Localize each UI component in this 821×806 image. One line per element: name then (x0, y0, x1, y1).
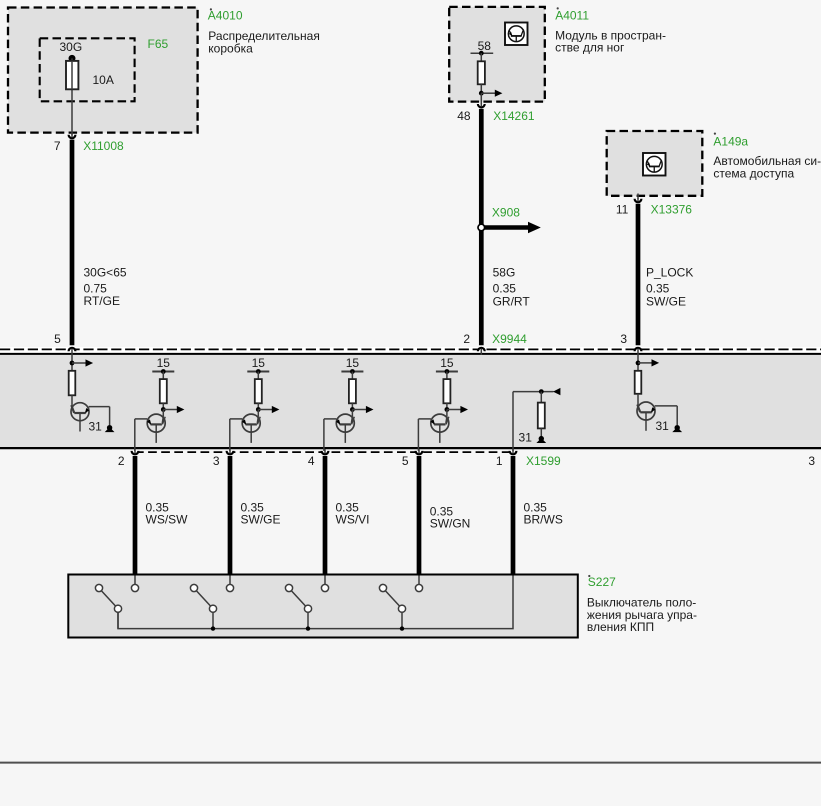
wire label 30G<65 0.75 RT/GE (84, 265, 127, 308)
svg-text:F65: F65 (148, 37, 169, 51)
label band pin 5 (54, 332, 61, 346)
label X14261 (493, 109, 535, 123)
wire resistor to node 4 (446, 403, 448, 409)
wire Q-B2 to pin 3 (230, 419, 243, 453)
label X11008 (83, 139, 124, 153)
svg-text:3: 3 (213, 454, 220, 468)
svg-text:стве для ног: стве для ног (555, 41, 625, 55)
svg-text:2: 2 (463, 332, 470, 346)
switch S227-4 input stub (418, 576, 420, 585)
wire label 0.35 SW/GN (430, 505, 471, 531)
pin tip in X14261 cup (480, 103, 482, 106)
svg-text:P_LOCK: P_LOCK (646, 266, 693, 280)
ground 31 center (536, 436, 546, 443)
svg-text:10A: 10A (93, 73, 114, 87)
label 31 center (519, 430, 533, 444)
svg-text:30G: 30G (60, 40, 83, 54)
wire node to transistor B2 (257, 410, 258, 424)
wire pin1 riser (513, 392, 554, 454)
wire pin5 into module (71, 349, 73, 371)
switch S227-1 input stub (134, 576, 136, 585)
connector X11008 cup (69, 135, 76, 138)
distribution box A4010 (8, 8, 198, 133)
wire Q-D emitter to ground (655, 406, 678, 425)
label pin 48 (457, 109, 471, 123)
band bottom pin 1 tip (512, 449, 514, 453)
switch S227-2 lever (196, 591, 210, 606)
band pin 3 cup (635, 348, 642, 351)
splice X908 node circle (478, 224, 485, 231)
svg-text:0.35: 0.35 (646, 282, 670, 296)
wire R-C to ground (540, 428, 542, 436)
band bottom pin 3 cup (227, 451, 234, 454)
label 31 left (89, 419, 103, 433)
svg-text:2: 2 (118, 454, 125, 468)
switch S227-4 common contact (398, 605, 405, 612)
node 58 bar (471, 51, 494, 56)
pin tip under band pin 2 (480, 349, 482, 355)
switch S227-4 common lead (401, 612, 403, 628)
node with output arrow B1 (161, 406, 184, 413)
resistor R-D (635, 371, 642, 394)
wire node C to resistor (540, 392, 542, 403)
node under pin3 with arrow (636, 359, 660, 366)
svg-text:A149a: A149a (713, 135, 748, 149)
switch S227-3 common lead (307, 612, 309, 628)
svg-text:X14261: X14261 (493, 109, 535, 123)
fuse box F65 (40, 38, 135, 101)
fuse F65 10A body (66, 61, 78, 89)
svg-text:WS/VI: WS/VI (336, 512, 370, 526)
label A4010 (208, 8, 243, 22)
switch S227-3 common contact (304, 605, 311, 612)
svg-text:коробка: коробка (208, 41, 253, 55)
wire 58 to resistor (480, 53, 482, 61)
wire Q-B1 to pin 2 (135, 419, 148, 453)
switch S227-4 lever (385, 591, 399, 606)
connector X13376 cup (635, 199, 642, 202)
wire node to transistor B4 (446, 410, 447, 424)
svg-text:BR/WS: BR/WS (524, 512, 563, 526)
bus junction dot 2 (211, 626, 215, 630)
KL15 bar 4 (436, 369, 458, 374)
node 30G dot (69, 55, 76, 62)
bus junction dot 3 (306, 626, 310, 630)
switch S227-3 open contact (285, 584, 292, 591)
label band pin 3 (620, 332, 627, 346)
label Автомобильная система доступа (713, 154, 821, 180)
KL15 label 4 (440, 356, 454, 370)
wire pin3 into module (637, 349, 639, 371)
svg-text:31: 31 (656, 419, 670, 433)
switch S227-2 common lead (212, 612, 214, 628)
wire KL15 to resistor 2 (257, 372, 259, 380)
wire resistor to node 2 (257, 403, 259, 409)
pin tip in X13376 cup (637, 198, 639, 201)
transistor Q-B2 (242, 414, 260, 443)
wire node to transistor B1 (162, 410, 163, 424)
wire Q-B3 to pin 4 (324, 419, 337, 453)
node with output arrow B3 (350, 406, 374, 413)
svg-text:31: 31 (89, 419, 103, 433)
svg-text:GR/RT: GR/RT (493, 294, 531, 308)
resistor R-B3 (349, 379, 356, 403)
svg-text:30G<65: 30G<65 (84, 265, 127, 279)
wire resistor to node (480, 84, 482, 93)
resistor in A4011 (478, 61, 485, 84)
wire KL15 to resistor 1 (162, 372, 164, 380)
svg-text:4: 4 (308, 454, 315, 468)
wire label 0.35 SW/GE (241, 501, 281, 527)
svg-text:X11008: X11008 (83, 139, 124, 153)
svg-text:вления КПП: вления КПП (587, 620, 654, 634)
svg-text:0.75: 0.75 (84, 281, 108, 295)
wire label P_LOCK 0.35 SW/GE (646, 266, 693, 309)
svg-text:7: 7 (54, 139, 61, 153)
svg-text:5: 5 (54, 332, 61, 346)
wire resistor to node 1 (162, 403, 164, 409)
wire node to transistor B3 (351, 410, 352, 424)
transistor Q-B4 (430, 414, 448, 443)
wire label 58G 0.35 GR/RT (493, 266, 531, 309)
svg-text:S227: S227 (588, 575, 616, 589)
transistor Q-A (71, 403, 89, 432)
car access system A149a (607, 131, 703, 196)
label bottom pin 1 (496, 454, 503, 468)
transistor Q-B3 (336, 414, 354, 443)
label Выключатель положения рычага управления КПП (587, 595, 697, 634)
band bottom pin 2 cup (132, 451, 139, 454)
band bottom pin 4 cup (322, 451, 329, 454)
label X13376 (651, 203, 693, 217)
connector X14261 cup (478, 104, 485, 107)
label 10A (93, 73, 114, 87)
svg-text:3: 3 (808, 454, 815, 468)
control module band top solid border (0, 353, 821, 355)
KL15 label 3 (346, 356, 360, 370)
label pin 11 (616, 203, 629, 217)
svg-text:X1599: X1599 (526, 454, 561, 468)
svg-text:SW/GE: SW/GE (241, 512, 281, 526)
svg-text:SW/GN: SW/GN (430, 516, 471, 530)
node 30G label (60, 40, 83, 54)
svg-text:стема доступа: стема доступа (713, 166, 794, 180)
KL15 label 1 (157, 356, 171, 370)
wire R-D to Q-D (638, 394, 641, 412)
wire Q-A emitter to ground (89, 407, 110, 426)
wire SW/GE pin 3 to S227 (228, 456, 233, 575)
svg-text:48: 48 (457, 109, 471, 123)
wire RT/GE from X11008 to X9944 pin 5 (70, 140, 75, 346)
svg-text:15: 15 (346, 356, 360, 370)
label A4011 (555, 7, 589, 22)
node 58 label (478, 39, 492, 53)
module icon in A149a (643, 153, 666, 176)
resistor R-A (69, 371, 76, 396)
bus junction dot 4 (400, 626, 404, 630)
label bottom pin 5 (402, 454, 409, 468)
switch S227-1 open contact (95, 584, 102, 591)
band bottom pin 5 cup (416, 451, 423, 454)
switch S227-1 common lead (117, 612, 119, 628)
svg-text:15: 15 (252, 356, 266, 370)
wire R-A to Q-A (72, 395, 75, 413)
switch S227-2 input contact (226, 584, 233, 591)
wire label 0.35 WS/VI (336, 501, 370, 527)
svg-text:X908: X908 (492, 206, 520, 220)
svg-text:X9944: X9944 (492, 332, 527, 346)
svg-text:11: 11 (616, 203, 629, 217)
transistor Q-D (637, 402, 655, 431)
wire WS/VI pin 4 to S227 (323, 456, 328, 575)
control module band top dashed border (0, 348, 821, 350)
S227 common bus (118, 576, 513, 629)
node under pin5 with arrow (70, 359, 94, 366)
wire BR/WS pin 1 to S227 (511, 456, 516, 575)
svg-text:15: 15 (157, 356, 171, 370)
label X9944 (492, 332, 527, 346)
transistor Q-B1 (147, 414, 165, 443)
ground 31 left (105, 425, 115, 432)
label band pin 2 (463, 332, 470, 346)
wire label 0.35 BR/WS (524, 501, 563, 527)
label bottom pin 3 (213, 454, 220, 468)
label Модуль в пространстве для ног (555, 29, 666, 55)
svg-text:31: 31 (519, 430, 533, 444)
label S227 (588, 575, 616, 589)
resistor R-B2 (255, 379, 262, 403)
band bottom pin 5 tip (418, 449, 420, 453)
wire KL15 to resistor 3 (351, 372, 353, 380)
switch S227-4 open contact (379, 584, 386, 591)
wire WS/SW pin 2 to S227 (133, 456, 138, 575)
connector X1599 dashed line (135, 451, 513, 453)
switch S227-4 input contact (415, 584, 422, 591)
svg-text:SW/GE: SW/GE (646, 294, 686, 308)
switch S227-2 input stub (229, 576, 231, 585)
switch S227-2 common contact (209, 605, 216, 612)
KL15 label 2 (252, 356, 266, 370)
svg-text:X13376: X13376 (651, 203, 693, 217)
label X1599 (526, 454, 561, 468)
node with output arrow in A4011 (479, 90, 503, 97)
control module band body (0, 354, 821, 448)
band pin 5 cup (69, 348, 76, 351)
switch box S227 (68, 575, 578, 638)
svg-text:58G: 58G (493, 266, 516, 280)
svg-text:A4010: A4010 (208, 9, 243, 23)
node with output arrow B2 (256, 406, 280, 413)
svg-text:58: 58 (478, 39, 492, 53)
svg-text:15: 15 (440, 356, 454, 370)
svg-text:5: 5 (402, 454, 409, 468)
band pin 2 cup (478, 348, 485, 351)
svg-text:0.35: 0.35 (493, 282, 517, 296)
label pin 7 (54, 139, 61, 153)
wire SW/GN pin 5 to S227 (417, 456, 422, 575)
switch S227-3 input stub (324, 576, 326, 585)
label X908 (492, 206, 520, 220)
switch S227-1 lever (101, 591, 115, 606)
switch S227-1 input contact (131, 584, 138, 591)
wire node to X14261 (480, 93, 482, 106)
label F65 (148, 37, 169, 51)
band bottom pin 1 cup (510, 451, 517, 454)
label bottom pin 2 (118, 454, 125, 468)
label band right pin 3 (808, 454, 815, 468)
switch S227-1 common contact (114, 605, 121, 612)
band bottom pin 3 tip (229, 449, 231, 453)
switch S227-3 lever (291, 591, 305, 606)
wire Q-B4 to pin 5 (418, 419, 431, 453)
label 31 right (656, 419, 670, 433)
node with output arrow B4 (445, 406, 469, 413)
svg-text:A4011: A4011 (555, 9, 589, 23)
wire resistor to node 3 (351, 403, 353, 409)
KL15 bar 2 (247, 369, 269, 374)
module icon in A4011 (505, 23, 528, 46)
pin tip in X11008 cup (71, 134, 73, 138)
label A149a (713, 133, 748, 149)
resistor R-B4 (443, 379, 450, 403)
switch S227-2 open contact (190, 584, 197, 591)
band bottom pin 2 tip (134, 449, 136, 453)
switch S227-3 input contact (321, 584, 328, 591)
control module band bottom solid border (0, 447, 821, 449)
wire SW/GE from X13376 to X9944 pin 3 (636, 204, 641, 346)
footwell module A4011 (449, 7, 545, 102)
KL15 bar 1 (152, 369, 174, 374)
splice X908 arrow (483, 222, 541, 234)
wire KL15 to resistor 4 (446, 372, 448, 380)
label Распределительная коробка (208, 29, 320, 55)
fuse F65 wire through (71, 58, 73, 136)
resistor R-B1 (160, 379, 167, 403)
label bottom pin 4 (308, 454, 315, 468)
svg-text:RT/GE: RT/GE (84, 294, 120, 308)
white connector strip above band (0, 347, 821, 353)
svg-text:1: 1 (496, 454, 503, 468)
wire stub to X13376 (637, 194, 639, 201)
svg-text:3: 3 (620, 332, 627, 346)
bottom separator line (0, 762, 821, 764)
node C dot (539, 389, 544, 394)
KL15 bar 3 (341, 369, 363, 374)
band bottom pin 4 tip (324, 449, 326, 453)
incoming arrow into node C (553, 388, 560, 395)
svg-text:WS/SW: WS/SW (146, 512, 189, 526)
wire GR/RT from X14261 to X9944 pin 2 (479, 109, 484, 345)
ground 31 right (672, 425, 682, 432)
wire label 0.35 WS/SW (146, 501, 189, 527)
resistor R-C (538, 403, 545, 429)
